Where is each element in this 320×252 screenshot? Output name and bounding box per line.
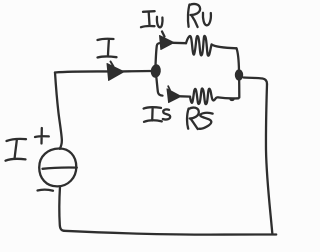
wire node A up to top branch: [156, 43, 161, 66]
wire left vertical: [55, 73, 62, 149]
plus sign: [35, 128, 49, 144]
blob on Rs wire: [229, 98, 234, 102]
inner right vertical wire: [237, 48, 240, 97]
label Rv: [188, 4, 211, 27]
wire top horizontal from source to node A: [55, 71, 151, 73]
arrow spike on top wire: [111, 62, 114, 67]
wire node A down to bottom branch: [156, 76, 162, 96]
node B junction dot: [235, 69, 243, 80]
wire Rs to inner right corner: [218, 97, 239, 98]
label I (source): [6, 139, 27, 161]
current source chord line: [43, 168, 77, 169]
label Is: [144, 107, 171, 122]
arrow bottom branch (Is): [167, 89, 181, 103]
resistor Rv zigzag: [186, 36, 212, 56]
arrow spike bottom branch: [168, 86, 170, 90]
wire to resistor Rs: [181, 95, 191, 98]
wire Rv to inner right corner: [212, 45, 237, 49]
wire to resistor Rv: [173, 42, 186, 45]
wire from source bottom: [59, 187, 64, 231]
current source circle: [39, 148, 76, 186]
resistor Rs zigzag: [190, 89, 218, 105]
arrow on top wire: [107, 64, 124, 81]
node A junction dot: [150, 64, 162, 79]
label Rs: [187, 108, 213, 129]
minus sign below source: [38, 189, 54, 192]
arrow spike top branch: [162, 32, 165, 37]
wire right vertical: [266, 84, 272, 234]
label Iv: [141, 11, 163, 27]
wire from node B to right vertical: [244, 78, 268, 85]
label I (main current): [98, 39, 117, 58]
wire bottom horizontal: [64, 231, 276, 235]
arrow top branch (Iv): [160, 36, 175, 50]
